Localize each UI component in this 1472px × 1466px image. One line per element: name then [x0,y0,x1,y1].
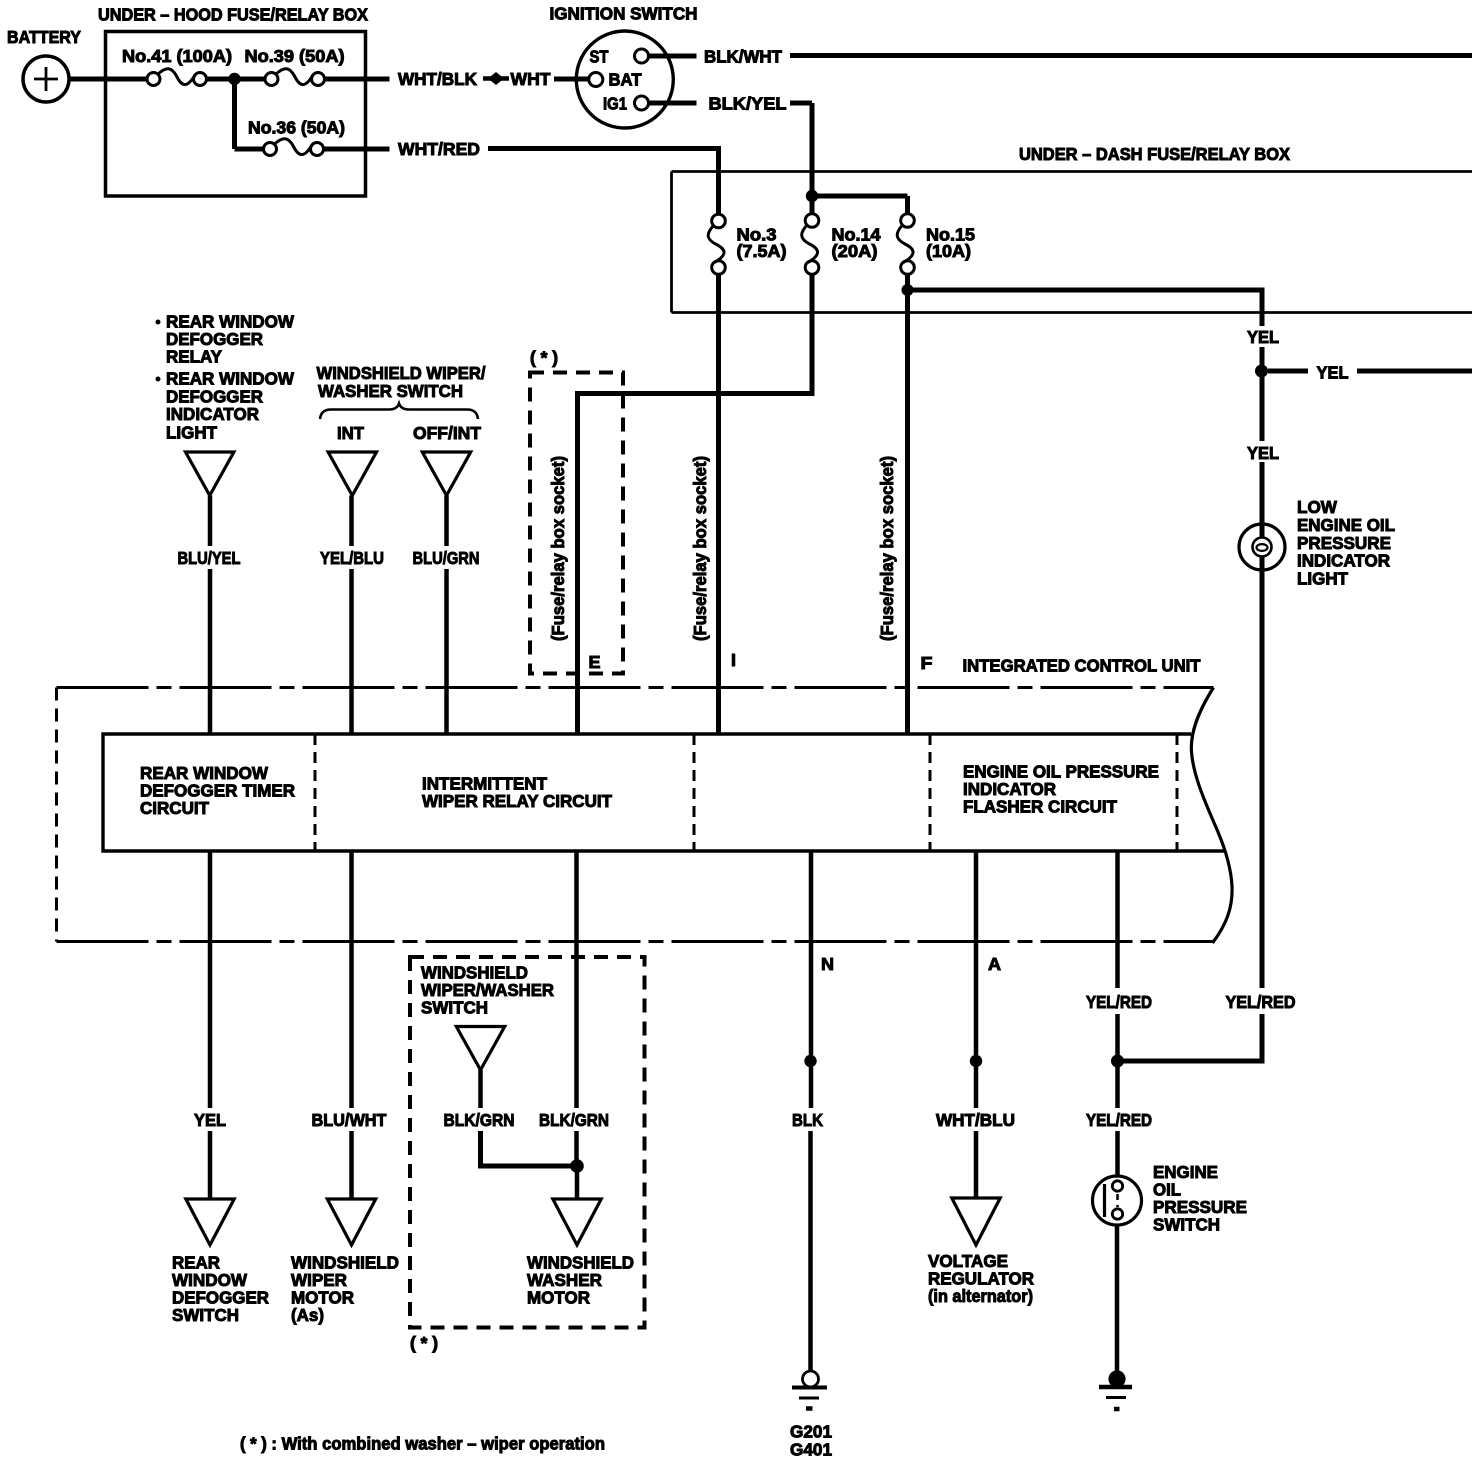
svg-text:( * ) : With combined washer –: ( * ) : With combined washer – wiper ope… [240,1434,605,1454]
connector INT [328,452,376,496]
wire BLU/YEL [178,496,241,735]
svg-text:YEL/RED: YEL/RED [1086,992,1152,1012]
svg-text:MOTOR: MOTOR [527,1288,590,1308]
connector windshield wiper/washer switch [456,1027,504,1071]
svg-text:LIGHT: LIGHT [166,423,217,443]
under-dash fuse/relay box [672,172,1472,313]
svg-text:(in alternator): (in alternator) [928,1286,1033,1306]
wire YEL/RED to switch [1086,851,1152,1055]
brace [320,404,478,420]
connector windshield washer motor [553,1199,601,1245]
node BLK/YEL junction [806,190,818,215]
svg-text:YEL: YEL [194,1110,226,1130]
svg-text:CIRCUIT: CIRCUIT [140,798,209,818]
svg-text:FLASHER CIRCUIT: FLASHER CIRCUIT [963,797,1117,817]
fuse/relay box socket label I [690,456,710,641]
integrated control unit outline [57,688,1233,944]
svg-text:(20A): (20A) [832,241,878,261]
svg-text:BAT: BAT [609,70,642,90]
wire pin ST [649,54,697,59]
fuse/relay box socket label F [877,456,897,641]
svg-text:RELAY: RELAY [166,347,222,367]
wire to node E [575,394,815,735]
svg-text:(As): (As) [291,1305,324,1325]
wire fuse No.15 to node F [905,290,910,734]
intermittent wiper relay circuit label [422,774,612,812]
under-hood fuse/relay box [106,32,366,197]
pin BAT [589,70,642,90]
engine oil pressure indicator flasher circuit label [963,762,1159,817]
svg-text:SWITCH: SWITCH [172,1305,239,1325]
svg-text:YEL/RED: YEL/RED [1086,1110,1152,1130]
ground engine oil pressure switch [1099,1370,1132,1409]
wire WHT/BLU [936,851,1015,1198]
position INT label [337,423,364,443]
svg-text:WHT/BLK: WHT/BLK [398,69,477,89]
wire WHT/BLK [324,69,477,89]
svg-text:INTEGRATED CONTROL UNIT: INTEGRATED CONTROL UNIT [963,656,1201,676]
pin ST [590,47,649,67]
windshield wiper/washer switch label [421,963,554,1018]
svg-text:(Fuse/relay box socket): (Fuse/relay box socket) [877,456,897,641]
under-dash fuse/relay box label [1019,144,1290,164]
svg-text:No.39 (50A): No.39 (50A) [245,46,345,66]
icu divider 1 [314,734,317,851]
svg-text:BLU/GRN: BLU/GRN [413,548,480,568]
svg-text:WHT: WHT [511,69,551,89]
ignition switch [576,31,673,128]
svg-text:IGNITION SWITCH: IGNITION SWITCH [550,4,698,24]
svg-text:BLU/WHT: BLU/WHT [312,1110,387,1130]
svg-text:YEL/BLU: YEL/BLU [320,548,384,568]
svg-text:BLK/GRN: BLK/GRN [539,1110,609,1130]
wire BLU/GRN [413,496,480,735]
svg-text:WIPER RELAY CIRCUIT: WIPER RELAY CIRCUIT [422,791,612,811]
wire WHT [511,69,590,89]
engine oil pressure switch label [1153,1162,1247,1235]
fuse No.3 (7.5A) [708,214,786,274]
svg-text:YEL: YEL [1317,363,1349,383]
node YEL junction [1255,365,1268,378]
svg-text:SWITCH: SWITCH [421,998,488,1018]
wire YEL to bulb [1247,377,1279,570]
windshield washer motor label [527,1253,634,1308]
svg-text:( * ): ( * ) [410,1333,438,1353]
node BLK/GRN junction [570,1159,584,1173]
icu divider 2 [693,734,696,851]
wire BLK/GRN right [539,851,609,1160]
svg-text:WHT/BLU: WHT/BLU [936,1110,1015,1130]
wire YEL vertical [1247,327,1279,365]
wire YEL/BLU [320,496,384,735]
wire fuse No.14 down [810,274,815,396]
svg-text:IG1: IG1 [603,94,627,114]
connector rear window defogger switch [186,1199,234,1245]
battery label [7,27,81,47]
node YEL/RED junction [1111,1055,1124,1068]
windshield wiper motor label [291,1253,399,1326]
wire WHT to pin BAT [554,77,589,82]
svg-text:A: A [988,954,1001,974]
position OFF/INT label [413,423,481,443]
svg-text:E: E [589,652,601,672]
battery [23,56,69,102]
svg-text:(Fuse/relay box socket): (Fuse/relay box socket) [690,456,710,641]
engine oil pressure switch [1093,1176,1142,1225]
icu divider 4 [1176,734,1179,851]
node N [821,954,834,974]
svg-text:BLK/WHT: BLK/WHT [704,47,782,67]
svg-text:G401: G401 [790,1440,832,1460]
svg-text:N: N [821,954,834,974]
svg-text:WHT/RED: WHT/RED [398,139,480,159]
svg-text:SWITCH: SWITCH [1153,1215,1220,1235]
voltage regulator label [928,1251,1034,1306]
node F [921,653,933,673]
connector voltage regulator [952,1198,1000,1245]
svg-text:G201: G201 [790,1422,832,1442]
icu inner box [103,734,1225,851]
svg-text:(7.5A): (7.5A) [737,241,787,261]
svg-text:YEL: YEL [1247,327,1279,347]
connector windshield wiper motor [327,1199,375,1245]
svg-text:No.41 (100A): No.41 (100A) [122,46,232,66]
svg-text:OFF/INT: OFF/INT [413,423,481,443]
svg-text:( * ): ( * ) [530,348,558,368]
low engine oil pressure indicator light label [1297,497,1395,589]
node E [589,652,601,672]
icu divider 3 [929,734,932,851]
svg-text:REAR WINDOW: REAR WINDOW [166,369,294,389]
low engine oil pressure indicator light [1239,524,1285,570]
svg-text:INT: INT [337,423,364,443]
connector OFF/INT [422,452,470,496]
svg-text:(10A): (10A) [926,241,971,261]
fuse No.41 (100A) [122,46,232,86]
wire BLK/GRN left [444,1070,578,1166]
rear window defogger relay / indicator light label [156,312,295,443]
windshield wiper/washer switch label [317,363,486,401]
wire YEL to defogger switch [194,851,226,1199]
svg-text:BLK: BLK [792,1110,823,1130]
wire YEL/RED lower [1086,1067,1152,1177]
svg-text:WASHER SWITCH: WASHER SWITCH [318,381,463,401]
wire to ground [1115,1225,1120,1372]
pin IG1 [603,94,649,114]
wire pin IG1 [649,101,697,106]
wire fuse No.41 to junction [206,77,230,82]
windshield wiper/washer switch dashed box [410,957,645,1353]
rear window defogger switch label [172,1253,269,1326]
svg-text:UNDER – HOOD FUSE/RELAY BOX: UNDER – HOOD FUSE/RELAY BOX [98,5,368,25]
svg-text:BATTERY: BATTERY [7,27,81,47]
wire YEL branch top [908,290,1265,326]
rear window defogger timer circuit label [140,763,295,818]
wire BLK/WHT [704,47,1472,67]
svg-text:F: F [921,653,933,673]
ignition switch label [550,4,698,24]
svg-text:LIGHT: LIGHT [1297,569,1348,589]
connector rear window defogger [186,452,234,496]
wire YEL to right [1268,363,1472,383]
node I [731,650,736,670]
svg-text:BLK/YEL: BLK/YEL [709,94,787,114]
svg-text:BLU/YEL: BLU/YEL [178,548,241,568]
wire BLK/YEL [709,94,813,197]
wire battery to under-hood box [69,77,148,82]
ground G201 G401 [790,1371,832,1460]
wire YEL/RED from bulb [1226,570,1296,1062]
svg-text:ST: ST [590,47,609,67]
footnote [240,1434,605,1454]
svg-text:YEL: YEL [1247,443,1279,463]
wire junction to fuse No.39 [235,77,266,82]
svg-text:No.36 (50A): No.36 (50A) [248,118,345,138]
svg-text:WINDSHIELD WIPER/: WINDSHIELD WIPER/ [317,363,486,383]
integrated control unit label [963,656,1201,676]
wire fuse No.3 to node I [716,274,721,734]
svg-text:INDICATOR: INDICATOR [166,404,259,424]
wire BLU/WHT [312,851,387,1199]
svg-text:YEL/RED: YEL/RED [1226,992,1296,1012]
svg-text:BLK/GRN: BLK/GRN [444,1110,515,1130]
fuse No.14 (20A) [802,214,881,275]
wire bulb branch to oil pressure switch wire [1118,1059,1265,1064]
splice diamond [483,72,509,85]
svg-text:UNDER – DASH FUSE/RELAY BOX: UNDER – DASH FUSE/RELAY BOX [1019,144,1290,164]
junction node [228,73,240,85]
wire junction to fuse No.36 [235,79,266,149]
node fuse No.15 junction [902,274,914,296]
fuse No.15 (10A) [897,214,975,275]
wire junction to fuse No.15 [812,196,908,215]
fuse No.36 (50A) [248,118,345,156]
wire WHT/RED [323,139,721,215]
under-hood fuse/relay box label [98,5,368,25]
fuse No.39 (50A) [245,46,345,86]
node A [988,954,1001,974]
svg-text:I: I [731,650,736,670]
wire BLK [792,851,823,1372]
svg-text:(Fuse/relay box socket): (Fuse/relay box socket) [548,456,568,641]
wire to washer motor [575,1166,580,1199]
fuse/relay box socket dashed box (*) [530,348,623,674]
fuse/relay box socket label E [548,456,568,641]
